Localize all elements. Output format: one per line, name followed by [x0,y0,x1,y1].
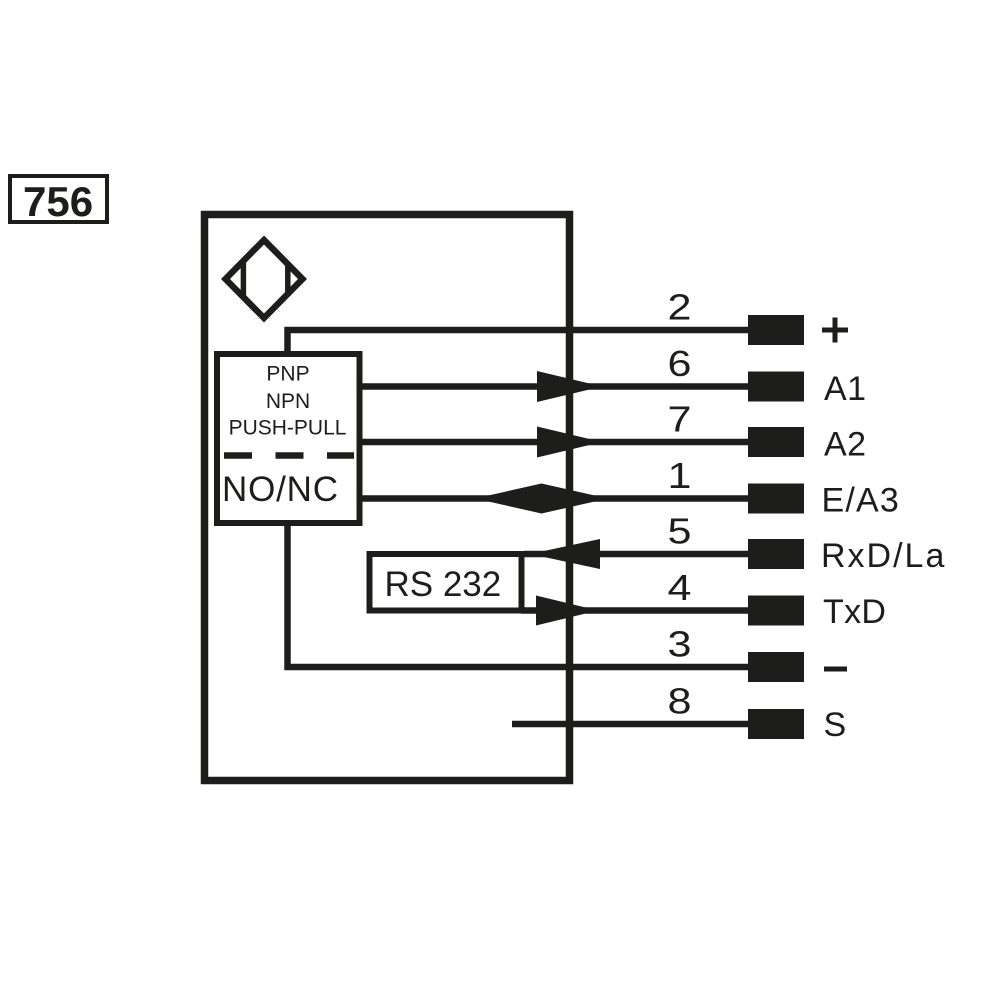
svg-text:RxD/La: RxD/La [821,537,946,575]
figure number box 756 [10,176,107,225]
wire pin 8 (S) [512,721,750,728]
svg-text:6: 6 [668,343,692,384]
node pin 7 terminal [748,427,804,457]
label + [822,318,848,343]
svg-text:1: 1 [668,455,692,496]
svg-text:NO/NC: NO/NC [222,470,339,509]
svg-text:3: 3 [668,624,692,665]
RS 232 interface box [370,554,522,611]
svg-text:756: 756 [23,178,93,225]
arrow output direction TxD [536,596,598,626]
svg-text:A1: A1 [824,370,867,408]
node pin 1 terminal [748,484,804,514]
svg-text:RS 232: RS 232 [385,565,502,604]
arrow input direction RxD [530,539,600,569]
node pin 2 terminal [748,315,804,345]
output stage box U1 (PNP/NPN/PUSH-PULL, NO/NC) [217,354,360,523]
wire pin 1 (E/A3) [357,495,750,502]
svg-text:4: 4 [668,567,692,608]
svg-text:8: 8 [668,681,692,722]
svg-text:A2: A2 [824,426,867,464]
dashed mode divider [224,452,354,459]
svg-text:S: S [824,706,847,744]
svg-text:PUSH-PULL: PUSH-PULL [229,417,347,440]
wire pin 3 (-) [285,664,751,671]
svg-text:PNP: PNP [266,363,309,386]
wire riser from supply wire to output stage box top [284,327,291,354]
svg-text:E/A3: E/A3 [822,482,901,520]
label minus [824,667,847,672]
svg-text:5: 5 [668,511,692,552]
svg-text:NPN: NPN [266,390,310,413]
node pin 8 terminal [748,709,804,739]
bidirectional arrow E/A3 [475,484,608,514]
arrow output direction A2 [537,427,602,458]
node pin 6 terminal [748,372,804,402]
node pin 3 terminal [748,652,804,682]
arrow output direction A1 [537,371,602,402]
wire pin 2 (+) [285,327,751,334]
optical sensor symbol (diamond) [226,240,303,318]
svg-text:2: 2 [668,287,692,328]
node pin 5 terminal [748,539,804,569]
wire pin 7 (A2) [357,439,750,446]
wire pin 4 (TxD) [521,607,750,614]
wire drop from output stage box bottom to minus wire [284,523,291,670]
wire pin 5 (RxD/La) [524,551,750,558]
sensor body outline [205,215,570,781]
node pin 4 terminal [748,596,804,626]
wire pin 6 (A1) [357,383,750,390]
svg-text:TxD: TxD [823,593,886,631]
svg-text:7: 7 [668,399,692,440]
